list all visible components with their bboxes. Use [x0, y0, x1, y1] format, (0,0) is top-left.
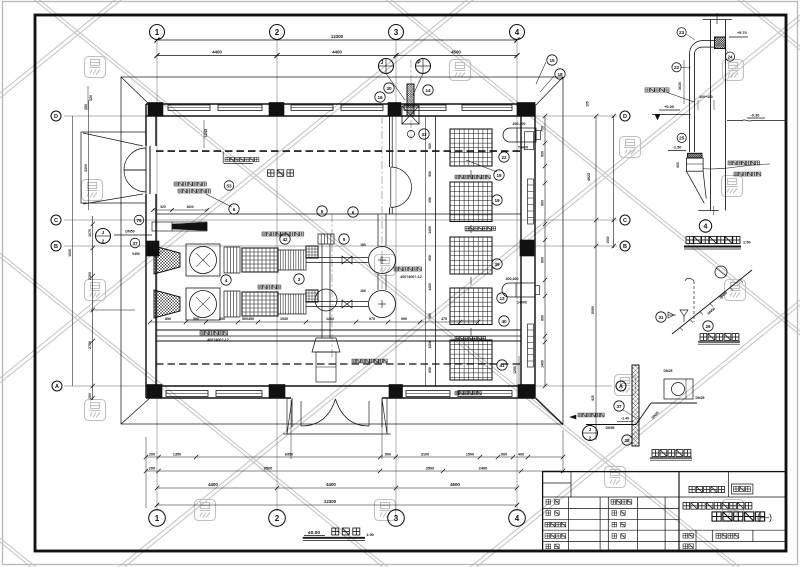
tag 19 grid2: [492, 195, 502, 205]
svg-text:205: 205: [586, 101, 590, 107]
porch steps: [283, 433, 391, 435]
svg-text:79: 79: [136, 218, 142, 223]
water pipe upper: [651, 402, 697, 404]
svg-text:+5.70: +5.70: [737, 31, 747, 35]
bottom wall window band 1b: [216, 391, 262, 397]
svg-text:600: 600: [676, 162, 680, 168]
svg-text:1250: 1250: [513, 366, 517, 374]
middle vertical pump 3 pipe: [321, 244, 323, 338]
svg-text:400+400: 400+400: [699, 95, 712, 99]
svg-text:500: 500: [193, 317, 199, 321]
bottom dim row 4 total: [157, 504, 517, 506]
fan ground line: [652, 113, 691, 115]
svg-text:1620: 1620: [186, 205, 193, 209]
right dim chain x545: [544, 116, 546, 386]
axis bubble 2 top: [270, 25, 285, 40]
title block vertical lines left: [568, 497, 570, 551]
svg-text:900: 900: [501, 453, 507, 457]
fan detail elbow: [690, 41, 703, 54]
column left wall axis C: [146, 241, 159, 256]
pump row 2 flange box with circle: [186, 288, 220, 320]
svg-text:1000: 1000: [68, 249, 72, 257]
fan detail horizontal pipe: [702, 40, 715, 42]
svg-text:B: B: [623, 244, 627, 250]
concrete base label below cone: [200, 331, 228, 335]
fan detail title: [686, 236, 740, 243]
column axis3 top: [388, 103, 401, 116]
stairs at left wall: [152, 222, 207, 231]
svg-text:1:50: 1:50: [743, 241, 751, 245]
tag 41 grid: [497, 360, 507, 370]
svg-text:4400: 4400: [326, 482, 336, 487]
column axis4/D corner: [517, 103, 535, 116]
column axis3 bottom: [389, 385, 403, 398]
interior dim chain x425: [424, 116, 426, 386]
axis bubble D left: [51, 111, 61, 121]
pump row 2 screw body grid hatched: [242, 292, 278, 316]
title block main divider: [678, 472, 680, 551]
tag 23 fan: [677, 28, 686, 37]
porch splayed sides: [287, 399, 292, 434]
water pipe riser 45deg: [636, 403, 651, 425]
title block verticals right: [728, 472, 730, 497]
top wall window band 3b: [462, 105, 512, 111]
svg-text:33: 33: [421, 132, 427, 137]
right wall: [520, 116, 522, 386]
svg-text:400,400: 400,400: [513, 122, 526, 126]
svg-text:14000: 14000: [517, 301, 527, 305]
svg-text:4922: 4922: [587, 173, 591, 181]
svg-text:600: 600: [541, 315, 545, 321]
drain funnel: [680, 310, 688, 316]
svg-text:C: C: [623, 218, 627, 224]
canopy hip line bottom-right: [536, 398, 563, 424]
svg-text:500450: 500450: [242, 317, 254, 321]
svg-text:+0.00: +0.00: [664, 104, 674, 109]
water wall bar hatched: [632, 365, 639, 446]
svg-text:250: 250: [84, 104, 88, 110]
svg-text:8500: 8500: [264, 466, 273, 471]
svg-text:53: 53: [226, 183, 232, 188]
top wall window band 2a: [291, 105, 333, 111]
drain diagonal pipe: [672, 270, 752, 334]
title block drawing title large: [712, 512, 765, 521]
axis bubble 1 bottom: [149, 510, 166, 527]
svg-text:40: 40: [501, 319, 507, 324]
svg-text:4400: 4400: [212, 50, 222, 55]
tag 79 left: [134, 215, 144, 225]
grid equipment pad 3: [450, 237, 492, 274]
axis bubble P top: [416, 59, 431, 74]
tag 37 left: [130, 238, 140, 248]
plan title text: [332, 528, 360, 535]
label mid: [258, 285, 281, 289]
svg-text:5: 5: [343, 237, 346, 242]
svg-text:1400: 1400: [428, 341, 432, 349]
pump row 2 coupling striped block: [224, 291, 240, 317]
axis bubble A right: [616, 381, 626, 391]
svg-text:975: 975: [369, 317, 375, 321]
svg-text:C: C: [54, 218, 58, 224]
svg-text:22: 22: [501, 155, 507, 160]
svg-text:3100: 3100: [421, 453, 429, 457]
title block verticals right bottom: [695, 530, 697, 551]
axis bubble 3 top: [389, 25, 404, 40]
concrete base label right of pumps: [394, 267, 422, 271]
svg-text:1070: 1070: [88, 229, 92, 237]
axis bubble J/2 water: [583, 426, 598, 441]
vertical axis line 2: [276, 40, 278, 511]
canopy hip line top-right: [536, 77, 563, 105]
tag 5: [339, 234, 349, 244]
left inlet splay bottom: [83, 194, 143, 204]
axis bubble B left: [51, 241, 61, 251]
grid equipment pad 2: [450, 182, 492, 222]
svg-text:DN25: DN25: [696, 396, 705, 400]
machine room lower channel wall: [156, 329, 521, 331]
water title underline: [650, 457, 692, 459]
tag 40 grid: [499, 316, 509, 326]
svg-text:13: 13: [499, 296, 505, 301]
svg-text:2: 2: [275, 28, 280, 37]
tag 42: [280, 234, 290, 244]
interior channel wall vertical: [435, 116, 437, 386]
right wall pilaster band 1: [528, 179, 534, 224]
svg-text:500: 500: [428, 171, 432, 177]
svg-text:600: 600: [428, 313, 432, 319]
svg-text:B: B: [54, 244, 58, 250]
svg-text:200: 200: [88, 393, 92, 399]
tag 33: [419, 129, 429, 139]
svg-text:4400: 4400: [208, 482, 218, 487]
title block row labels col2: [611, 500, 632, 505]
svg-text:A: A: [55, 384, 59, 390]
watermark logo tiles: [85, 57, 106, 78]
svg-text:4: 4: [225, 278, 228, 283]
tag 22 grid: [499, 152, 509, 162]
lower dashed line: [156, 363, 521, 365]
svg-text:(—): (—): [757, 512, 772, 522]
left inlet splay top: [83, 133, 143, 146]
svg-text:1: 1: [155, 28, 160, 37]
canopy hip line top-left: [121, 77, 150, 105]
svg-text:6: 6: [321, 209, 324, 214]
tag 26 drain: [703, 321, 713, 331]
title block fig label: [716, 533, 739, 538]
drain diagram title: [700, 334, 739, 341]
porch side walls: [291, 398, 293, 427]
svg-text:600: 600: [541, 200, 545, 206]
svg-text:T4600: T4600: [518, 146, 528, 150]
axis bubble 1 top: [150, 25, 165, 40]
fan pipe label: [645, 88, 669, 92]
tag 13 pump oval2: [497, 293, 507, 303]
svg-text:1350: 1350: [173, 453, 181, 457]
svg-text:19: 19: [494, 198, 500, 203]
middle vertical pump 3 striped box: [318, 234, 334, 244]
right dim line x596: [595, 116, 597, 440]
title block scale label: [683, 534, 693, 539]
svg-text:750: 750: [541, 126, 545, 132]
axis bubble A left: [52, 381, 62, 391]
right wall pilaster band 2: [528, 324, 534, 367]
pump row 1 valve: [342, 256, 352, 264]
svg-text:6950: 6950: [285, 453, 293, 457]
label pipe install mid: [262, 232, 304, 236]
bottom dim row 2: [146, 470, 563, 472]
riser leader lines from J P: [386, 74, 405, 101]
tag 31 drain: [656, 312, 666, 322]
tag 15 canopy corner: [547, 55, 557, 65]
title block row labels col1: [546, 500, 559, 505]
label right of plan 2: [455, 391, 481, 395]
tag 53: [224, 181, 234, 191]
svg-text:±0.00: ±0.00: [308, 530, 320, 536]
svg-text:D: D: [623, 114, 627, 120]
horizontal axis line C: [64, 219, 617, 221]
top wall window band 2b: [341, 105, 383, 111]
label screen machine top: [225, 157, 259, 161]
bottom wall window band 1a: [166, 391, 208, 397]
svg-text:1000: 1000: [606, 236, 610, 243]
svg-text:39: 39: [494, 262, 500, 267]
svg-text:5050: 5050: [591, 306, 595, 314]
pump 3 bottom box: [316, 352, 336, 382]
bottom dim extension lines: [145, 437, 147, 508]
svg-text:12300: 12300: [331, 34, 344, 39]
svg-text:4: 4: [515, 514, 520, 523]
water diagram title: [652, 450, 691, 457]
svg-text:320: 320: [89, 95, 93, 101]
svg-text:500: 500: [385, 453, 391, 457]
label pipe install left: [174, 182, 206, 186]
axis bubble B right: [620, 241, 630, 251]
svg-text:600: 600: [428, 255, 432, 261]
title block outer frame: [543, 472, 786, 551]
top wall window band 3a: [404, 105, 446, 111]
left dimension chain: [92, 216, 94, 400]
top wall window band 1a: [168, 105, 210, 111]
top dimension line 12300: [157, 39, 517, 41]
tag 28 water: [622, 435, 632, 445]
tag 25 fan: [677, 133, 686, 142]
svg-text:25: 25: [679, 136, 685, 141]
room label grid room: [268, 170, 294, 177]
fan detail centerline: [716, 13, 718, 24]
svg-text:2: 2: [275, 514, 280, 523]
svg-text:600: 600: [541, 151, 545, 157]
vertical axis line 1: [156, 40, 158, 511]
drain title underline: [698, 341, 740, 343]
svg-text:475: 475: [441, 317, 447, 321]
fan detail title underline: [684, 246, 741, 248]
axis bubble D right: [620, 111, 630, 121]
svg-text:450: 450: [428, 197, 432, 203]
svg-text:15: 15: [549, 58, 555, 63]
water feed label: [578, 413, 604, 417]
drain diagram riser: [693, 281, 695, 322]
svg-text:400?400?-12: 400?400?-12: [400, 275, 422, 279]
svg-text:A: A: [619, 384, 623, 390]
column axis2 top: [269, 103, 284, 116]
svg-text:3: 3: [298, 277, 301, 282]
water pipe horizontal: [586, 424, 636, 426]
top wall window band 1b: [218, 105, 262, 111]
svg-text:400: 400: [518, 453, 524, 457]
interior partition wall axis3: [389, 116, 391, 167]
right wall window small: [525, 132, 534, 150]
fan unit housing: [686, 158, 703, 171]
column axis4/A corner: [518, 385, 535, 398]
middle pump 3 bell mouth: [312, 338, 340, 352]
svg-text:400,400: 400,400: [506, 277, 519, 281]
fan unit base plate hatched: [688, 153, 702, 158]
svg-text:16: 16: [377, 95, 383, 100]
left datum line: [91, 309, 135, 311]
svg-text:1200: 1200: [326, 317, 334, 321]
inlet small circle: [407, 130, 414, 137]
svg-text:825: 825: [591, 395, 595, 401]
tag 39 grid: [492, 259, 502, 269]
svg-text:850: 850: [165, 317, 171, 321]
sump room dashed line: [156, 150, 521, 152]
svg-text:28: 28: [624, 438, 630, 443]
svg-text:185: 185: [360, 289, 366, 293]
tag 4: [221, 275, 231, 285]
middle pump 3 circle: [315, 289, 337, 311]
svg-text:0450: 0450: [132, 252, 140, 256]
axis bubble J/2 left: [96, 229, 111, 244]
svg-text:2780: 2780: [88, 341, 92, 349]
svg-text:31: 31: [658, 315, 664, 320]
interior centerline axis3 pump: [331, 214, 333, 358]
left wall: [145, 104, 147, 146]
svg-text:3300: 3300: [84, 164, 88, 172]
grid equipment pad 4: [450, 288, 492, 325]
riser pipe between rows: [377, 274, 379, 290]
title block project name: [683, 503, 752, 510]
svg-text:42: 42: [282, 237, 288, 242]
top wall: [146, 103, 535, 105]
svg-text:520: 520: [160, 205, 166, 209]
drain extra symbol: [668, 314, 676, 316]
svg-text:12300: 12300: [324, 499, 337, 504]
bottom wall window band 3b: [458, 391, 512, 397]
pump row 2 valve: [342, 300, 352, 308]
pump row 1 flange box with circle: [186, 244, 220, 276]
svg-text:6: 6: [233, 207, 236, 212]
svg-text:1:50: 1:50: [366, 533, 374, 537]
axis bubble C left: [51, 215, 61, 225]
svg-text:200: 200: [149, 466, 156, 471]
svg-text:1500: 1500: [466, 453, 474, 457]
svg-text:26: 26: [705, 324, 711, 329]
svg-text:1400: 1400: [541, 360, 545, 368]
partition door leaves: [391, 167, 412, 188]
pump row 1 end circle: [369, 247, 396, 274]
fan detail vertical duct: [710, 20, 712, 211]
horizontal axis line B: [64, 245, 617, 247]
axis bubble C right: [620, 215, 630, 225]
tag 24 fan: [725, 52, 734, 61]
fan detail duct fan box hatched: [715, 37, 726, 49]
title block client name: [689, 486, 725, 492]
svg-text:850: 850: [219, 317, 225, 321]
bottom dim row 1: [146, 456, 563, 458]
pump discharge centerline: [381, 116, 383, 292]
svg-text:37: 37: [132, 241, 138, 246]
pump row 2 end circle: [369, 291, 396, 318]
svg-text:2300: 2300: [88, 272, 92, 280]
bottom dim row 3 bays: [157, 487, 517, 489]
left axis extension line: [71, 116, 73, 386]
column axis1/A corner: [147, 385, 162, 398]
tag 14: [423, 85, 433, 95]
svg-text:23: 23: [679, 30, 685, 35]
svg-text:D: D: [54, 114, 58, 120]
column axis2 bottom: [269, 385, 285, 398]
bottom wall: [146, 385, 535, 387]
svg-text:3630: 3630: [678, 82, 682, 90]
svg-text:600: 600: [428, 143, 432, 149]
title block row lines left: [543, 496, 679, 498]
svg-text:DN25: DN25: [664, 369, 673, 373]
svg-text:4: 4: [515, 28, 520, 37]
grid equipment pad 1: [450, 129, 492, 166]
tag 22 fan: [672, 63, 681, 72]
svg-text:2400: 2400: [479, 466, 488, 471]
fan base leader and labels: [703, 164, 770, 169]
column right wall axis C: [520, 240, 534, 256]
pump row 2 motor fin section: [278, 294, 306, 314]
title block row4 label: [683, 544, 693, 549]
bottom right canopy hip: [535, 398, 563, 425]
svg-text:41: 41: [499, 363, 505, 368]
canopy eave outline: [121, 77, 563, 424]
fan support braces: [686, 171, 704, 203]
svg-text:1: 1: [155, 514, 160, 523]
fan ground line right: [727, 120, 786, 121]
svg-text:19: 19: [496, 173, 502, 178]
svg-text:22: 22: [674, 65, 680, 70]
left outside pipe DN50: [114, 234, 152, 236]
tag 19 grid: [494, 170, 504, 180]
riser pipe from pump row1: [377, 214, 379, 246]
horizontal axis line D: [64, 115, 617, 117]
axis bubble 3 bottom: [388, 510, 405, 527]
grid equipment pad 5: [450, 340, 492, 380]
inlet pipe centerline: [410, 60, 412, 140]
left inlet structure outline: [81, 132, 146, 203]
svg-text:990: 990: [401, 317, 407, 321]
svg-text:30: 30: [386, 86, 392, 91]
tag 18 canopy corner: [555, 69, 565, 79]
right dim D-C 4922: [613, 116, 615, 248]
title block right middle row line: [679, 529, 786, 531]
svg-text:600: 600: [541, 257, 545, 263]
svg-text:24: 24: [727, 54, 733, 59]
pump area dimension chain: [150, 321, 478, 323]
grid pads centerline ticks: [470, 170, 472, 336]
small pump unit 2: [502, 283, 535, 297]
svg-text:3: 3: [394, 28, 399, 37]
water valve box: [664, 379, 693, 399]
stair dim 520 1620: [153, 209, 207, 211]
svg-text:J: J: [381, 60, 384, 66]
pump row 2 top junction box grid: [306, 290, 318, 302]
svg-text:1400: 1400: [428, 283, 432, 291]
axis bubble 4 top: [510, 25, 525, 40]
